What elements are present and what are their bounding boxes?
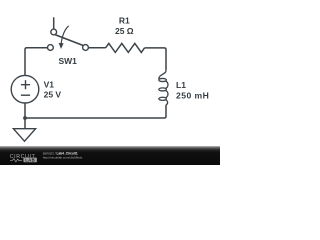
wire from V1 bottom to junction and ground: [24, 103, 26, 129]
switch SW1 lever: [55, 35, 83, 46]
svg-text:25 V: 25 V: [44, 89, 62, 99]
inductor L1 coil oval 3: [159, 97, 167, 100]
inductor L1 coil exit hook: [166, 100, 168, 105]
svg-text:25 Ω: 25 Ω: [115, 26, 134, 36]
inductor L1 coil oval 1: [159, 78, 167, 81]
svg-text:L1: L1: [176, 80, 186, 90]
V1 plus sign: [21, 80, 30, 89]
wire from resistor to top-right corner and down to inductor: [145, 48, 167, 71]
CircuitLab logo LAB box: [23, 158, 37, 163]
switch SW1 right terminal: [83, 45, 89, 51]
wire from switch right terminal to resistor: [88, 47, 105, 49]
footer bar: [0, 146, 220, 165]
svg-text:LAB: LAB: [25, 158, 35, 163]
switch SW1 top throw terminal: [51, 29, 57, 35]
junction node dot: [23, 116, 27, 120]
svg-text:R1: R1: [119, 16, 130, 26]
inductor L1 coil oval 2: [159, 88, 167, 91]
svg-text:SW1: SW1: [58, 56, 77, 66]
voltage source V1 circle: [11, 75, 39, 103]
switch SW1 left terminal: [48, 45, 54, 51]
svg-text:250 mH: 250 mH: [176, 90, 209, 100]
V1 minus sign: [21, 94, 30, 96]
CircuitLab logo wave: [10, 159, 22, 162]
inductor L1 coil connector 2-3: [166, 90, 168, 97]
switch SW1 actuator arrow: [61, 26, 69, 44]
svg-text:V1: V1: [44, 80, 55, 90]
svg-text:http://circuitlab.com/c5y56bdx: http://circuitlab.com/c5y56bdx: [43, 155, 83, 159]
wire from inductor bottom to bottom rail: [25, 105, 166, 118]
wire from switch left terminal to left branch corner: [25, 48, 48, 76]
inductor L1 coil connector 1-2: [166, 81, 168, 88]
wire stub above switch throw: [53, 17, 55, 29]
ground symbol: [13, 129, 35, 142]
resistor R1 zigzag: [106, 43, 145, 52]
inductor L1 coil entry hook: [159, 71, 166, 80]
